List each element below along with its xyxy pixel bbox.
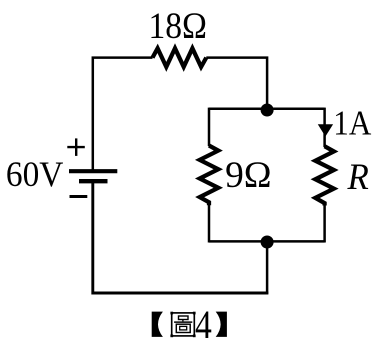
svg-text:4: 4 bbox=[195, 302, 212, 345]
svg-text:60V: 60V bbox=[6, 154, 64, 194]
svg-text:9Ω: 9Ω bbox=[225, 155, 272, 196]
caption right bracket bbox=[216, 312, 227, 337]
svg-text:1A: 1A bbox=[333, 104, 372, 143]
battery 60V long plate bbox=[69, 169, 117, 173]
label R bbox=[347, 157, 369, 198]
resistor 18-ohm zigzag bbox=[153, 48, 207, 67]
wire right branch upper bbox=[323, 108, 326, 147]
wire left branch upper bbox=[208, 108, 211, 146]
battery 60V short plate bbox=[79, 179, 108, 183]
node bottom junction dot bbox=[261, 236, 274, 249]
node top junction dot bbox=[261, 104, 274, 117]
label minus sign bbox=[70, 195, 88, 198]
wire from 18-ohm to top node bbox=[206, 58, 267, 110]
current arrow 1A bbox=[318, 124, 333, 136]
label 60V bbox=[6, 154, 64, 194]
svg-text:18Ω: 18Ω bbox=[149, 6, 208, 47]
label 9-ohm bbox=[225, 155, 272, 196]
wire from bottom node to bottom rail bbox=[266, 242, 269, 294]
wire top of parallel section bbox=[209, 108, 325, 111]
wire left branch lower bbox=[208, 204, 211, 243]
svg-text:R: R bbox=[347, 157, 369, 198]
caption character tu (figure) bbox=[170, 312, 195, 338]
label 18-ohm bbox=[149, 6, 208, 47]
caption digit 4 bbox=[195, 302, 212, 345]
resistor 9-ohm zigzag bbox=[200, 146, 219, 206]
wire bottom rail to battery minus bbox=[93, 182, 268, 293]
caption left bracket bbox=[152, 312, 163, 337]
wire bottom of parallel section bbox=[209, 240, 325, 243]
wire right branch lower bbox=[323, 205, 326, 243]
label plus sign bbox=[67, 138, 85, 156]
resistor R zigzag bbox=[315, 146, 334, 205]
label 1A bbox=[333, 104, 372, 143]
wire top from battery plus to 18-ohm resistor bbox=[93, 58, 153, 170]
